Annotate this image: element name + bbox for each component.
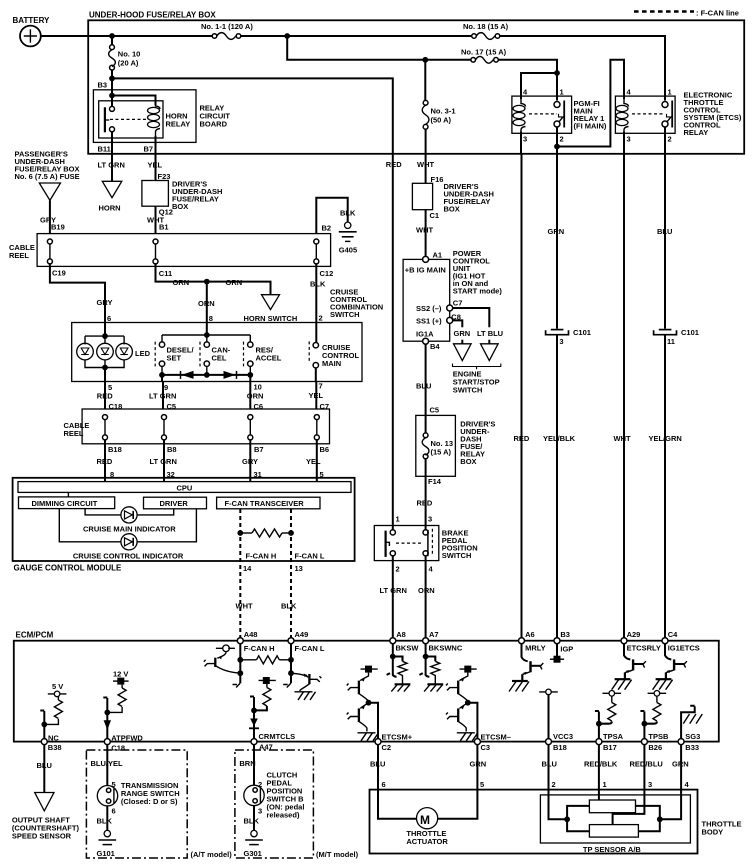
- svg-text:RED: RED: [386, 160, 402, 169]
- output shaft speed sensor arrow: [12, 793, 80, 841]
- PGM-FI relay coil feed wire: [521, 70, 560, 99]
- svg-text:WHT: WHT: [416, 225, 433, 234]
- fuse No. 17 (15 A): [461, 48, 507, 64]
- svg-text:HORN SWITCH: HORN SWITCH: [244, 314, 298, 323]
- cable reel pins B1/C11: [153, 239, 158, 264]
- svg-text:F-CAN L: F-CAN L: [295, 644, 325, 653]
- wire coil feed to horn relay coil: [112, 96, 156, 106]
- svg-text:1: 1: [560, 88, 564, 97]
- VCC3 circuit: [539, 689, 558, 738]
- wire ETCSM+ junction to C2: [369, 703, 379, 739]
- wire LED bottom bus to pin 5: [85, 360, 124, 382]
- svg-text:RELAY: RELAY: [166, 120, 191, 129]
- pin C4: [662, 630, 700, 653]
- horn relay box: [99, 101, 191, 138]
- svg-text:BOX: BOX: [460, 457, 476, 466]
- svg-text:ECM/PCM: ECM/PCM: [16, 631, 54, 640]
- svg-text:3: 3: [523, 135, 527, 144]
- svg-text:C19: C19: [52, 268, 66, 277]
- wire RED PGM-FI pin 3 to ECM A6: [514, 154, 530, 638]
- LED cluster: [77, 343, 151, 360]
- svg-text:BLU/YEL: BLU/YEL: [91, 759, 124, 768]
- svg-text:WHT: WHT: [614, 434, 631, 443]
- wire YEL B7 to F23: [155, 154, 157, 181]
- wire BLK to G101: [97, 806, 116, 831]
- svg-text:IGP: IGP: [560, 645, 573, 654]
- switch CRUISE CONTROL MAIN: [309, 341, 359, 381]
- svg-text:: F-CAN line: : F-CAN line: [696, 9, 739, 18]
- transistor F-CAN L driver: [291, 673, 321, 700]
- svg-text:YEL: YEL: [148, 161, 163, 170]
- cable reel lower pins C18/B18: [103, 415, 108, 440]
- svg-text:No. 18 (15 A): No. 18 (15 A): [463, 22, 509, 31]
- wire RED under-hood to brake pedal switch pin 1: [386, 154, 402, 530]
- svg-text:C11: C11: [159, 269, 172, 278]
- svg-text:+B IG MAIN: +B IG MAIN: [405, 266, 446, 275]
- svg-text:RED: RED: [97, 457, 113, 466]
- svg-text:BATTERY: BATTERY: [13, 16, 51, 25]
- svg-text:BLU: BLU: [657, 227, 672, 236]
- wires combination switch to lower cable reel: [105, 382, 316, 410]
- PGM-FI main relay 1 box: [512, 88, 607, 144]
- ETCS relay contacts: [632, 101, 672, 128]
- svg-text:LT GRN: LT GRN: [98, 161, 125, 170]
- engine start/stop switch brace: [453, 364, 501, 370]
- wire LT GRN brake pin 2 to ECM A8: [380, 556, 407, 638]
- pin B18: [546, 732, 574, 752]
- pin A48: [237, 630, 274, 653]
- svg-text:2: 2: [319, 313, 323, 322]
- svg-text:6: 6: [107, 314, 111, 323]
- TPSB circuit: [640, 691, 666, 739]
- svg-text:F16: F16: [431, 175, 444, 184]
- svg-text:VCC3: VCC3: [553, 732, 573, 741]
- wire BLU B38 to speed sensor: [37, 745, 52, 793]
- cable reel lower pins C7/B6: [314, 415, 319, 440]
- svg-text:GAUGE CONTROL MODULE: GAUGE CONTROL MODULE: [14, 564, 123, 573]
- fuse No. 3-1 (50 A) vertical: [422, 100, 455, 129]
- wire horn relay contact to B11: [111, 132, 113, 154]
- svg-text:BOX: BOX: [444, 205, 460, 214]
- wire RED/BLK B17 to TP sensor pin 1: [584, 745, 618, 790]
- svg-text:TPSB: TPSB: [648, 732, 669, 741]
- pin C7: [447, 305, 453, 311]
- svg-text:BLK: BLK: [281, 602, 297, 611]
- F-CAN H internal stub: [233, 644, 244, 688]
- svg-text:7: 7: [319, 382, 323, 391]
- svg-text:B8: B8: [167, 445, 177, 454]
- transistor ETCSM+ lower: [347, 703, 379, 741]
- svg-text:GRN: GRN: [454, 329, 471, 338]
- svg-text:DIMMING CIRCUIT: DIMMING CIRCUIT: [32, 499, 98, 508]
- svg-text:B1: B1: [159, 222, 169, 231]
- LED cruise main indicator: [83, 507, 176, 534]
- fuse No. 18 (15 A): [463, 22, 509, 39]
- IG1ETCS transistor: [653, 644, 687, 690]
- CPU box: [18, 482, 351, 493]
- diode pointing left: [181, 371, 194, 379]
- svg-text:SPEED SENSOR: SPEED SENSOR: [12, 832, 72, 841]
- svg-text:2: 2: [552, 780, 556, 789]
- svg-text:G101: G101: [97, 849, 115, 858]
- pin A47: [251, 732, 295, 752]
- fuse No. 1-1 (120 A): [201, 22, 253, 39]
- svg-text:SWITCH: SWITCH: [330, 310, 360, 319]
- svg-text:BKSWNC: BKSWNC: [429, 643, 463, 652]
- pin A8: [390, 630, 420, 653]
- wire BLU/YEL-GRN ETCS pin 2 to ECM C4: [649, 154, 682, 638]
- cable reel lower pins C5/B8: [162, 415, 167, 440]
- NC 5V circuit: [40, 682, 66, 738]
- gauge pin numbers 8 32 31 5: [110, 470, 324, 479]
- svg-text:REEL: REEL: [64, 429, 84, 438]
- pin B38: [41, 733, 61, 752]
- wire dimmer LED bus: [85, 323, 124, 345]
- svg-text:C101: C101: [681, 328, 699, 337]
- wire GRN B33 to TP sensor pin 4: [672, 745, 690, 790]
- junction ETCSM+: [366, 700, 372, 706]
- svg-text:CRMTCLS: CRMTCLS: [259, 732, 296, 741]
- svg-text:SWITCH: SWITCH: [442, 551, 472, 560]
- battery BATTERY: [13, 16, 51, 46]
- svg-text:BLK: BLK: [244, 817, 260, 826]
- wire ETCSM- junction to C3: [468, 703, 478, 739]
- svg-text:B11: B11: [98, 145, 111, 154]
- svg-text:BKSW: BKSW: [396, 643, 420, 652]
- svg-text:SET: SET: [167, 354, 182, 363]
- svg-text:RED/BLU: RED/BLU: [630, 760, 663, 769]
- svg-text:F-CAN H: F-CAN H: [244, 644, 275, 653]
- svg-text:IG1ETCS: IG1ETCS: [668, 643, 700, 652]
- fuse box No. 13 driver's under-dash: [416, 415, 496, 476]
- diode pointing right: [224, 371, 237, 379]
- ETCS control relay box: [615, 88, 742, 144]
- horn relay coil: [148, 96, 161, 154]
- horn relay contacts: [105, 106, 150, 132]
- svg-text:released): released): [267, 811, 300, 820]
- svg-text:SS2 (–): SS2 (–): [416, 304, 442, 313]
- svg-text:C7: C7: [453, 298, 463, 307]
- svg-text:ETCSM+: ETCSM+: [382, 733, 413, 742]
- wire color labels above gauge: [97, 457, 322, 466]
- svg-text:GRN: GRN: [470, 760, 487, 769]
- wire RED/BLU B26 to TP sensor pin 3: [630, 745, 663, 790]
- wire BLU C2 to throttle actuator pin 6: [370, 745, 386, 790]
- F-CAN transceiver box: [217, 497, 320, 509]
- svg-text:F-CAN TRANSCEIVER: F-CAN TRANSCEIVER: [225, 499, 305, 508]
- wire WHT No.3-1 to F16: [417, 154, 434, 184]
- svg-text:1: 1: [603, 780, 607, 789]
- svg-text:No. 1-1 (120 A): No. 1-1 (120 A): [201, 22, 253, 31]
- svg-text:IG1A: IG1A: [416, 329, 434, 338]
- pin C3: [474, 733, 511, 753]
- switch CAN-CEL: [200, 342, 231, 367]
- junction battery bus at x287: [284, 33, 290, 39]
- svg-text:B33: B33: [685, 743, 699, 752]
- svg-text:CPU: CPU: [177, 483, 193, 492]
- svg-text:TPSA: TPSA: [603, 732, 624, 741]
- horn switch arrow: [244, 295, 298, 323]
- svg-text:ETCSRLY: ETCSRLY: [627, 643, 661, 652]
- svg-text:RELAY: RELAY: [684, 128, 709, 137]
- svg-text:12 V: 12 V: [113, 670, 128, 679]
- svg-text:C101: C101: [573, 328, 591, 337]
- svg-text:3: 3: [627, 135, 631, 144]
- svg-text:BLK: BLK: [97, 817, 113, 826]
- cable reel lower pins C6/B7: [248, 415, 253, 440]
- wire BLU ETCS pin 2 down: [664, 127, 666, 154]
- wire B3 into relay board: [111, 78, 113, 106]
- svg-text:CRUISE MAIN INDICATOR: CRUISE MAIN INDICATOR: [83, 525, 176, 534]
- wire No.3-1 branch down: [424, 60, 426, 100]
- svg-text:ETCSM–: ETCSM–: [481, 733, 511, 742]
- svg-text:A1: A1: [433, 250, 443, 259]
- svg-text:GRN: GRN: [548, 227, 565, 236]
- wire TP pin 1 to element A: [598, 790, 600, 800]
- node C12 BLK 2: [310, 269, 333, 322]
- PGM-FI relay contacts: [529, 101, 564, 128]
- svg-text:BLK: BLK: [340, 209, 356, 218]
- wire TP pin 2 branch: [549, 790, 590, 832]
- svg-text:B26: B26: [648, 743, 662, 752]
- svg-text:G405: G405: [339, 246, 357, 255]
- node F-CAN L 13: [295, 552, 325, 573]
- svg-text:B18: B18: [108, 445, 122, 454]
- dimming circuit box: [19, 497, 115, 509]
- svg-text:(FI MAIN): (FI MAIN): [574, 121, 607, 130]
- svg-text:A49: A49: [295, 630, 309, 639]
- pin C2: [375, 733, 413, 753]
- pin A49: [288, 630, 325, 653]
- svg-text:No. 10: No. 10: [118, 50, 141, 59]
- cable reel box (lower): [64, 409, 330, 444]
- driver box: [144, 497, 207, 509]
- wire B2 to G405: [316, 198, 347, 234]
- pin A29: [621, 630, 661, 653]
- connector C101 pin 3: [546, 328, 591, 346]
- wire BLU B18 to TP sensor pin 2: [542, 745, 557, 790]
- svg-text:LT GRN: LT GRN: [380, 586, 407, 595]
- svg-text:2: 2: [560, 135, 564, 144]
- under-hood fuse/relay box: [88, 11, 744, 154]
- svg-text:NC: NC: [48, 733, 59, 742]
- svg-text:TP SENSOR A/B: TP SENSOR A/B: [583, 845, 642, 854]
- svg-text:C4: C4: [668, 630, 678, 639]
- svg-text:BLU: BLU: [370, 760, 385, 769]
- wire BLU B4 to No.13: [416, 344, 439, 415]
- svg-text:C1: C1: [430, 211, 440, 220]
- wire GRN C3 to throttle actuator pin 5: [470, 745, 487, 790]
- wire B3 bus right and down (RED feed): [112, 78, 393, 153]
- svg-text:CEL: CEL: [212, 354, 227, 363]
- node GRY B19: [40, 215, 65, 231]
- svg-text:A8: A8: [396, 630, 406, 639]
- wire Q12 to B1: [155, 206, 157, 233]
- svg-text:3: 3: [648, 780, 652, 789]
- wire GRY C19 to combination switch pin 6: [50, 264, 105, 323]
- passenger's under-dash fuse label: [15, 150, 80, 182]
- svg-text:GRN: GRN: [672, 760, 689, 769]
- SG3 ground circuit: [681, 706, 702, 739]
- ETCSRLY transistor: [612, 644, 646, 690]
- cruise control combination switch label: [330, 288, 383, 320]
- junction battery bus at x112: [109, 33, 115, 39]
- junction ETCSM-: [465, 700, 471, 706]
- svg-text:(50 A): (50 A): [431, 116, 452, 125]
- svg-text:SS1 (+): SS1 (+): [416, 317, 442, 326]
- svg-text:WHT: WHT: [417, 160, 434, 169]
- cable reel box (upper): [9, 234, 331, 267]
- svg-text:2: 2: [668, 135, 672, 144]
- svg-text:BRN: BRN: [239, 759, 255, 768]
- svg-text:2: 2: [396, 564, 400, 573]
- ECM/PCM box: [14, 631, 719, 742]
- svg-text:BLK: BLK: [310, 280, 326, 289]
- BKSWNC circuit: [419, 644, 443, 692]
- svg-text:ACTUATOR: ACTUATOR: [406, 837, 448, 846]
- wire TP pin 3 to element B: [613, 790, 645, 825]
- ETCSM- lower transistor: [446, 703, 478, 741]
- wire BRN A47 to clutch switch: [239, 745, 262, 789]
- wire RED F14 to brake pedal switch pin 3: [417, 476, 442, 530]
- svg-text:ACCEL: ACCEL: [256, 354, 282, 363]
- svg-text:B7: B7: [254, 445, 264, 454]
- svg-text:HORN: HORN: [99, 204, 121, 213]
- A/T model dashed box: [86, 750, 232, 859]
- cable reel pins B19/C19: [47, 239, 52, 264]
- svg-text:CRUISE CONTROL INDICATOR: CRUISE CONTROL INDICATOR: [73, 551, 184, 560]
- svg-text:6: 6: [112, 807, 116, 816]
- connector labels C18 C5 C6 C7: [109, 402, 330, 411]
- svg-text:B2: B2: [322, 223, 332, 232]
- svg-text:SWITCH: SWITCH: [453, 385, 483, 394]
- svg-text:YEL/BLK: YEL/BLK: [543, 434, 576, 443]
- svg-text:BOARD: BOARD: [200, 120, 228, 129]
- transmission range switch: [97, 781, 179, 806]
- svg-text:WHT: WHT: [236, 602, 253, 611]
- svg-text:3: 3: [559, 337, 563, 346]
- ground G301: [244, 830, 263, 858]
- switch output bus with diodes: [159, 366, 253, 377]
- fuse No. 10 (20 A) vertical: [109, 36, 141, 78]
- wire C7 to LT BLU start switch: [453, 308, 490, 344]
- junction ORN: [204, 279, 210, 285]
- wire CPU to dimming circuit: [67, 492, 69, 497]
- svg-text:RED: RED: [417, 499, 433, 508]
- wire ORN junction down to pin 8: [206, 282, 208, 323]
- F-CAN bus resistor: [240, 656, 291, 664]
- svg-text:(20 A): (20 A): [118, 59, 139, 68]
- pin B26: [641, 732, 669, 752]
- svg-text:14: 14: [243, 564, 252, 573]
- cruise control combination switch box: [72, 323, 362, 382]
- svg-text:MRLY: MRLY: [525, 643, 546, 652]
- svg-text:C5: C5: [430, 406, 440, 415]
- F-CAN L internal stub: [283, 644, 294, 688]
- svg-text:F-CAN H: F-CAN H: [246, 552, 277, 561]
- svg-text:RED: RED: [514, 434, 530, 443]
- svg-text:A48: A48: [244, 630, 258, 639]
- brake pedal position switch box: [374, 526, 477, 561]
- svg-text:A6: A6: [525, 630, 535, 639]
- TP sensor element B: [589, 825, 638, 838]
- svg-text:ORN: ORN: [198, 299, 215, 308]
- LED cruise control indicator: [59, 509, 196, 561]
- svg-text:F14: F14: [428, 477, 442, 486]
- fuse F16 driver's under-dash box: [412, 175, 494, 213]
- wire F-CAN L dashed gauge to ECM A49: [290, 509, 292, 638]
- svg-text:DRIVER: DRIVER: [160, 499, 189, 508]
- svg-text:B7: B7: [144, 145, 154, 154]
- wire pin 9 LT GRN: [161, 375, 163, 382]
- svg-text:M: M: [420, 813, 430, 827]
- ETCS relay coil: [616, 96, 629, 154]
- engine start/stop switch arrow GRN: [454, 344, 472, 361]
- svg-text:ORN: ORN: [226, 278, 243, 287]
- engine start/stop switch arrow LT BLU: [481, 344, 499, 361]
- wire WHT C1 to power control unit A1: [416, 210, 439, 257]
- connector labels B18 B8 B7 B6: [108, 445, 329, 454]
- svg-text:BOX: BOX: [172, 202, 188, 211]
- svg-text:GRY: GRY: [97, 298, 113, 307]
- svg-text:LT GRN: LT GRN: [150, 457, 177, 466]
- TP sensor box: [540, 795, 690, 854]
- horn arrow: [99, 181, 122, 212]
- wires cable reel to gauge CPU: [105, 440, 317, 482]
- F-CAN line legend: [634, 9, 739, 18]
- TP sensor element A: [589, 800, 635, 813]
- svg-text:A29: A29: [627, 630, 641, 639]
- throttle body box: [370, 790, 742, 854]
- switch DESEL/SET: [155, 342, 194, 367]
- svg-text:ORN: ORN: [173, 278, 190, 287]
- svg-text:G301: G301: [244, 849, 262, 858]
- svg-text:(A/T model): (A/T model): [191, 850, 233, 859]
- svg-text:BLU: BLU: [542, 760, 557, 769]
- wire pin8 to switch bus: [162, 323, 250, 342]
- svg-text:B17: B17: [603, 743, 617, 752]
- svg-text:C2: C2: [382, 743, 392, 752]
- wire junction287 down and right through fuse No.17 to PGM-FI pin 1: [287, 36, 557, 101]
- wire TP pin 4 branch: [636, 790, 682, 832]
- wire WHT ETCS pin 3 to ECM A29: [614, 154, 631, 638]
- wire BLK C12 to cruise main: [315, 264, 317, 343]
- fuse F23 driver's under-dash box: [142, 172, 223, 211]
- svg-text:BLU: BLU: [416, 382, 431, 391]
- F-CAN terminating resistor: [237, 529, 293, 537]
- svg-text:B19: B19: [51, 222, 65, 231]
- pin B4: [423, 338, 429, 344]
- ATPFWD 12V circuit: [103, 670, 128, 739]
- svg-text:11: 11: [667, 337, 675, 346]
- wire PGM-FI pin 2 to ETCS coil pin 4: [554, 60, 624, 150]
- svg-text:YEL: YEL: [306, 457, 321, 466]
- pins below combination switch: [97, 382, 324, 401]
- svg-text:No. 17 (15 A): No. 17 (15 A): [461, 48, 507, 57]
- svg-text:C12: C12: [320, 269, 334, 278]
- svg-text:SG3: SG3: [685, 732, 700, 741]
- svg-text:ATPFWD: ATPFWD: [111, 733, 143, 742]
- power control unit box: [403, 249, 502, 351]
- pin B17: [596, 732, 624, 752]
- svg-text:3: 3: [428, 515, 432, 524]
- svg-text:B4: B4: [430, 342, 440, 351]
- ground G101: [97, 830, 117, 858]
- clutch pedal position switch B: [244, 771, 305, 820]
- wire F-CAN H dashed gauge to ECM A48: [239, 509, 241, 638]
- junction B3 bus: [109, 76, 115, 82]
- svg-text:No. 3-1: No. 3-1: [431, 107, 456, 116]
